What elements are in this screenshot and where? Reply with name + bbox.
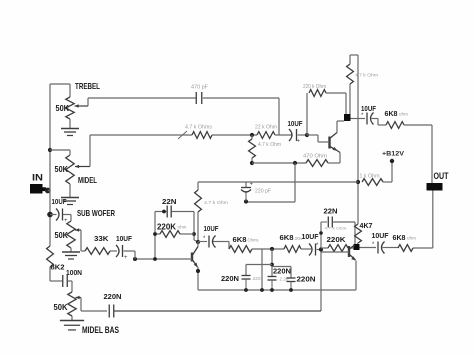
svg-text:OUT: OUT: [434, 171, 449, 181]
potentiometer 50K TREBEL: [56, 81, 101, 119]
node IN terminal: [30, 173, 51, 194]
node OUT terminal: [427, 171, 449, 191]
svg-text:6K8: 6K8: [385, 109, 398, 118]
wire cap2 branch: [271, 249, 273, 277]
wire cap3 top link: [272, 267, 291, 279]
svg-text:10UF: 10UF: [288, 119, 303, 128]
wire to 6K8 chain: [213, 242, 229, 250]
svg-text:ohm: ohm: [178, 225, 188, 230]
wire to node1: [212, 134, 257, 136]
wire 6K8b right: [301, 248, 311, 250]
svg-text:470 pF: 470 pF: [191, 85, 208, 91]
wire cap to base node: [298, 134, 308, 136]
wire midel wiper: [75, 135, 192, 168]
svg-text:220 pF: 220 pF: [255, 189, 271, 195]
svg-text:8K2: 8K2: [51, 263, 65, 272]
node Q1 base: [305, 133, 309, 137]
node emitter net: [250, 161, 254, 165]
wire midelbas out: [114, 310, 321, 312]
wire feedback left: [153, 212, 157, 260]
svg-text:10UF: 10UF: [52, 197, 67, 206]
wire cap to 6K8 out: [383, 247, 399, 249]
ground: [61, 198, 79, 205]
svg-text:220N: 220N: [297, 275, 316, 284]
node Q3 collector junction: [354, 244, 360, 250]
wire 22k to cap: [275, 134, 292, 136]
resistor 33K: [81, 234, 110, 254]
wire square1 out: [351, 118, 366, 120]
capacitor 22N stage2: [162, 197, 177, 218]
wire 33K right: [110, 250, 117, 252]
svg-text:4.7 k Ohms: 4.7 k Ohms: [185, 125, 213, 131]
node E: [270, 247, 274, 251]
resistor 4K7 stage3: [355, 221, 373, 245]
svg-text:22 k Ohm: 22 k Ohm: [255, 125, 277, 131]
resistor 6K8 a: [229, 235, 259, 252]
wire cap to base2: [124, 251, 136, 259]
potentiometer 50K SUB WOFER: [55, 208, 116, 248]
resistor 6K8 b: [280, 233, 304, 252]
resistor 220k Ohm feedback: [303, 84, 346, 135]
svg-text:4K7: 4K7: [360, 221, 373, 230]
svg-text:220N: 220N: [104, 292, 122, 301]
node 1: [250, 133, 254, 137]
wire treble wiper: [75, 98, 197, 108]
svg-text:4.7 k Ohm: 4.7 k Ohm: [204, 200, 228, 206]
svg-text:SUB WOFER: SUB WOFER: [77, 208, 115, 218]
wire OUT down: [413, 191, 433, 249]
resistor 6K8 bottom: [393, 233, 417, 251]
wire emitter net: [252, 162, 306, 164]
svg-text:+: +: [297, 139, 301, 145]
node A: [48, 148, 52, 152]
svg-text:10UF: 10UF: [116, 234, 132, 243]
resistor 6K8 top: [385, 109, 409, 128]
wire midelbas wiper: [76, 296, 108, 311]
wire cap to 6K8: [372, 119, 387, 126]
capacitor 100N: [63, 268, 82, 287]
wire pot4 bottom: [71, 316, 73, 320]
wire 470 to emitter: [328, 162, 340, 164]
wire 6K8a right: [252, 248, 284, 250]
svg-text:4.7 k Ohm: 4.7 k Ohm: [325, 226, 348, 231]
svg-text:1 k Ohm: 1 k Ohm: [360, 174, 380, 180]
node supply rail: [356, 180, 360, 184]
wire input rail: [48, 84, 62, 281]
transistor Q1: [307, 121, 344, 163]
wire arrow mark: [178, 131, 187, 139]
wire 470pF right: [203, 98, 279, 135]
svg-text:+B12V: +B12V: [382, 151, 405, 158]
potentiometer 50K MIDEL BAS: [54, 292, 120, 335]
node base3 junction: [319, 231, 323, 251]
capacitor 22N stage3: [321, 207, 347, 231]
capacitor 220N b: [268, 267, 292, 291]
capacitor 470pF: [191, 85, 208, 105]
svg-text:MIDEL BAS: MIDEL BAS: [82, 325, 119, 335]
capacitor 220pF: [241, 182, 271, 202]
node Q2 emitter: [196, 269, 200, 273]
wire cap to pot3: [63, 215, 71, 222]
svg-text:ohm: ohm: [407, 236, 417, 241]
svg-text:22N: 22N: [324, 207, 338, 216]
capacitor 10UF stage2 out: [198, 224, 219, 248]
wire treble bottom: [69, 119, 71, 128]
svg-text:IN: IN: [32, 173, 43, 183]
resistor 4.7k Ohm stage2 load: [195, 182, 228, 242]
capacitor 10UF input: [50, 197, 68, 224]
node feedback: [192, 232, 196, 236]
wire supply rail: [198, 181, 358, 183]
capacitor 10UF out top: [361, 106, 377, 125]
svg-text:6K8: 6K8: [393, 233, 406, 242]
wire square2 out: [360, 247, 377, 249]
svg-text:50K: 50K: [55, 230, 69, 240]
resistor 4.7k Ohm vertical: [249, 135, 281, 163]
svg-text:10UF: 10UF: [372, 233, 390, 240]
capacitor 220N midelbas: [104, 292, 122, 318]
svg-text:100N: 100N: [66, 268, 82, 277]
svg-text:50K: 50K: [55, 164, 69, 174]
wire 22N right: [172, 212, 199, 243]
wire 6K8 to OUT: [404, 125, 432, 183]
svg-text:50K: 50K: [54, 302, 69, 312]
svg-text:220N: 220N: [221, 274, 239, 283]
node D: [244, 199, 248, 203]
node C: [293, 161, 297, 165]
wire subwofer wiper: [75, 228, 81, 251]
capacitor 220N a: [221, 274, 261, 290]
svg-text:33K: 33K: [94, 234, 109, 243]
svg-text:Ohms: Ohms: [248, 238, 259, 243]
capacitor 220N c: [287, 275, 316, 291]
wire midel top: [50, 150, 70, 155]
ground: [62, 252, 80, 259]
ground: [60, 321, 84, 330]
wire supply vertical: [357, 55, 359, 224]
resistor 8K2: [47, 246, 65, 272]
svg-text:6K8: 6K8: [233, 235, 247, 244]
resistor 220K stage3: [321, 235, 354, 251]
transistor Q3: [321, 245, 356, 290]
resistor 1k Ohm: [360, 161, 393, 185]
ground: [61, 129, 79, 136]
svg-text:220 k Ohm: 220 k Ohm: [303, 84, 326, 90]
svg-text:10UF: 10UF: [204, 224, 220, 233]
svg-text:2.2u: 2.2u: [280, 277, 290, 282]
wire 100N right: [68, 281, 73, 292]
capacitor 10UF coupling: [288, 119, 303, 145]
capacitor 10UF stage3 out: [372, 233, 390, 254]
svg-text:220K: 220K: [157, 223, 176, 232]
potentiometer 50K MIDEL: [55, 155, 98, 185]
resistor 470 Ohm: [303, 154, 328, 167]
wire cap to base3: [317, 249, 322, 251]
svg-text:10UF: 10UF: [302, 234, 320, 241]
svg-text:10UF: 10UF: [361, 106, 377, 113]
resistor 4.7k Ohm: [185, 125, 213, 139]
wire cap1 top link: [246, 265, 272, 276]
svg-text:TREBEL: TREBEL: [75, 81, 100, 91]
wire midel bottom: [69, 184, 71, 198]
node base stage2: [133, 257, 157, 261]
svg-text:220: 220: [253, 276, 262, 281]
svg-text:50K: 50K: [56, 103, 70, 113]
resistor 4.7k Ohm load: [347, 55, 379, 114]
node +B12V: [382, 151, 405, 164]
svg-text:470 Ohm: 470 Ohm: [303, 154, 327, 160]
svg-text:+: +: [124, 255, 128, 261]
resistor 220K stage2: [155, 223, 194, 238]
wire treble top: [50, 84, 70, 97]
capacitor 10UF subwoofer: [116, 234, 132, 261]
node B: [47, 212, 53, 218]
capacitor 10UF stage3 in: [302, 234, 320, 256]
wire base3 vertical: [320, 222, 322, 311]
wire 22N left: [155, 210, 167, 214]
svg-text:4.7 k Ohm: 4.7 k Ohm: [258, 142, 281, 148]
node rail dots: [244, 288, 293, 292]
svg-text:MIDEL: MIDEL: [78, 175, 97, 185]
transistor Q2: [135, 242, 198, 291]
svg-text:6K8: 6K8: [280, 233, 294, 242]
svg-text:220N: 220N: [273, 267, 291, 276]
node Q1 collector junction: [344, 114, 351, 121]
svg-text:22N: 22N: [162, 197, 177, 206]
wire 220pF branch: [246, 163, 295, 202]
wire pot3 bottom: [70, 248, 72, 252]
wire emitter rail: [198, 289, 356, 291]
node Q2 collector: [196, 240, 200, 244]
node F: [270, 263, 274, 267]
resistor 22k Ohm: [255, 125, 277, 139]
wire tap down: [261, 249, 263, 290]
wire 22N right stage3: [332, 222, 355, 244]
svg-text:ohm: ohm: [399, 112, 409, 117]
svg-text:220K: 220K: [327, 235, 347, 244]
